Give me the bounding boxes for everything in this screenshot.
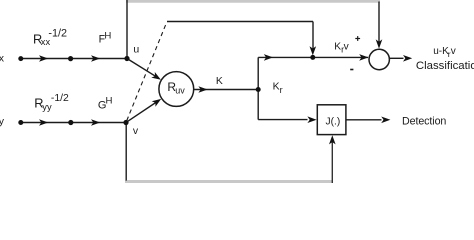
svg-text:u-K: u-K (433, 46, 449, 57)
svg-text:v: v (451, 46, 456, 57)
svg-text:Detection: Detection (402, 115, 446, 127)
svg-text:r: r (280, 85, 283, 95)
svg-text:v: v (344, 42, 350, 53)
svg-text:H: H (104, 31, 111, 42)
svg-text:K: K (273, 82, 280, 93)
svg-text:J(.): J(.) (326, 117, 341, 128)
svg-text:-1/2: -1/2 (51, 93, 69, 104)
svg-text:y: y (0, 115, 5, 127)
svg-text:u: u (133, 44, 139, 56)
svg-text:K: K (216, 76, 223, 87)
svg-text:x: x (0, 52, 5, 64)
svg-text:H: H (106, 96, 113, 107)
svg-text:v: v (133, 125, 139, 137)
svg-text:-1/2: -1/2 (48, 27, 67, 39)
svg-text:Classification: Classification (416, 60, 474, 72)
svg-text:uv: uv (175, 86, 185, 96)
